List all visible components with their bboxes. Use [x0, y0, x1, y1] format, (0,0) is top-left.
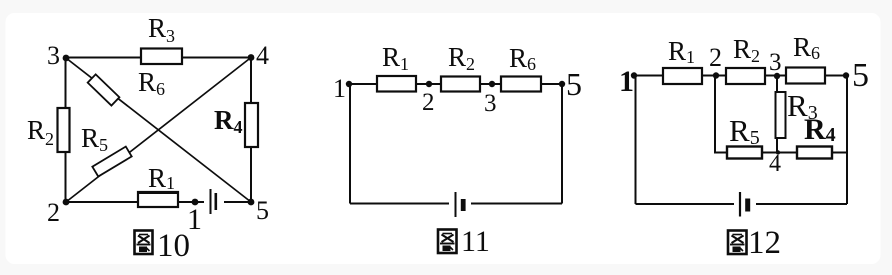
- node 2 (fig11): [426, 81, 432, 87]
- wire bottom battery to right: [471, 203, 562, 205]
- wire middle rail: [714, 152, 848, 154]
- svg-text:3: 3: [769, 49, 782, 76]
- svg-text:4: 4: [256, 41, 269, 70]
- node 1 (fig12): [631, 72, 637, 78]
- node 2: [63, 199, 70, 206]
- resistor R5 (tilted on 2-4 diagonal): [92, 147, 131, 177]
- caption glyph tu (fig11): [438, 230, 457, 254]
- resistor R2: [58, 108, 70, 152]
- resistor R6 (fig12): [786, 68, 825, 84]
- node 5: [248, 199, 255, 206]
- resistor R4: [245, 103, 258, 147]
- node 3: [63, 55, 70, 62]
- svg-text:1: 1: [619, 65, 634, 98]
- wire left 3-2: [65, 58, 67, 203]
- wire diagonal 2-4: [66, 58, 251, 203]
- wire top row 1-5: [349, 83, 562, 85]
- wire bottom 2 to battery: [66, 201, 205, 203]
- wire left vertical: [349, 84, 351, 204]
- wire bottom left to battery: [350, 203, 449, 205]
- node 1 junction dot: [192, 199, 199, 206]
- resistor R2 (fig11): [441, 77, 480, 92]
- resistor R1 (fig11): [377, 76, 416, 92]
- svg-text:5: 5: [852, 57, 869, 94]
- battery (fig10): [211, 189, 216, 214]
- node 4 (fig12): [776, 150, 780, 154]
- wire vertical from node 3 through R3 to node 4: [776, 76, 778, 153]
- node 2 (fig12): [713, 72, 719, 78]
- caption glyph tu (fig10): [135, 231, 153, 255]
- resistor R4 (fig12): [797, 147, 832, 159]
- wire top 3-4: [66, 57, 251, 59]
- wire bottom battery to 5: [224, 201, 251, 203]
- svg-text:12: 12: [748, 225, 781, 261]
- svg-text:2: 2: [709, 43, 722, 72]
- svg-text:10: 10: [157, 228, 190, 264]
- battery (fig11): [456, 192, 466, 217]
- battery (fig12): [740, 192, 750, 217]
- node 5 (fig11): [559, 81, 565, 87]
- resistor R5 (fig12): [727, 147, 762, 159]
- svg-text:2: 2: [47, 198, 60, 227]
- resistor R3 (fig12, vertical): [776, 92, 786, 138]
- wire bottom left to battery: [636, 203, 735, 205]
- node 1 (fig11): [346, 81, 352, 87]
- resistor R6 (tilted on 3-5 diagonal): [88, 74, 120, 105]
- wire diagonal 3-5: [66, 58, 251, 202]
- node 4: [248, 54, 255, 61]
- svg-text:2: 2: [422, 89, 435, 116]
- resistor R3: [141, 49, 182, 65]
- node 3 (fig12): [774, 73, 780, 79]
- svg-text:11: 11: [461, 225, 490, 258]
- svg-text:5: 5: [256, 196, 269, 225]
- caption glyph tu (fig12): [728, 231, 747, 255]
- resistor R1 (fig12): [663, 68, 702, 84]
- wire vertical from node 2: [714, 76, 716, 153]
- resistor R6 (fig11): [501, 77, 541, 92]
- svg-text:4: 4: [769, 151, 781, 177]
- resistor R2 (fig12): [726, 68, 765, 84]
- svg-text:3: 3: [484, 90, 497, 117]
- svg-text:5: 5: [566, 66, 582, 102]
- svg-text:1: 1: [333, 74, 346, 103]
- wire right 4-5: [250, 58, 252, 203]
- wire bottom battery to right: [756, 203, 847, 205]
- wire right vertical from node 5: [846, 76, 848, 205]
- svg-text:3: 3: [47, 41, 60, 70]
- wire left vertical from node 1: [635, 76, 637, 205]
- resistor R1: [138, 192, 178, 207]
- wire right vertical: [561, 84, 563, 204]
- node 3 (fig11): [489, 81, 495, 87]
- wire top row 1-5: [634, 75, 846, 77]
- node 5 (fig12): [843, 72, 849, 78]
